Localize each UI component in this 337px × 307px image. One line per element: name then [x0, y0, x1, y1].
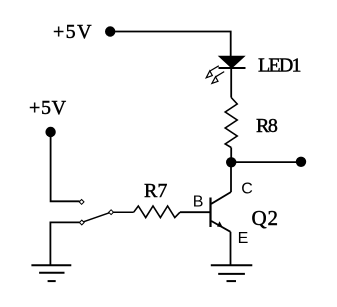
transistor Q2 emitter arrowhead	[217, 221, 223, 227]
ground (emitter) line 1	[211, 264, 253, 266]
transistor Q2 collector diagonal	[211, 192, 231, 204]
svg-text:E: E	[238, 230, 249, 247]
wire: left +5V down and right to upper switch contact	[51, 132, 80, 201]
switch upper throw contact (diamond)	[79, 200, 84, 205]
resistor R8	[225, 98, 237, 148]
LED1 anode triangle	[219, 56, 244, 68]
switch lower throw contact (diamond)	[79, 220, 84, 225]
wire: ground branch up to lower switch contact	[50, 222, 79, 265]
svg-text:C: C	[241, 181, 253, 198]
wire: R7 to base	[180, 211, 211, 213]
transistor Q2 base bar	[209, 198, 211, 228]
node: +5V top terminal dot	[105, 26, 115, 36]
ground (emitter) line 2	[218, 273, 245, 275]
wire: R8 bottom to collector junction	[230, 148, 232, 163]
svg-text:+5V: +5V	[53, 21, 93, 43]
LED1 light emission arrow 2	[212, 72, 224, 84]
svg-text:LED1: LED1	[258, 54, 300, 76]
ground (emitter) line 3	[227, 280, 237, 282]
ground (switch) line 1	[31, 264, 71, 266]
node: right terminal dot	[296, 157, 306, 167]
svg-text:R7: R7	[144, 180, 167, 202]
wire: collector vertical from junction to transistor	[230, 162, 232, 192]
wire: junction to right terminal	[231, 161, 301, 163]
wire: emitter to ground	[230, 232, 232, 265]
transistor Q2 emitter diagonal	[211, 221, 230, 232]
ground (switch) line 2	[39, 272, 64, 274]
switch pole contact (diamond)	[109, 210, 114, 215]
node: collector junction dot	[226, 157, 236, 167]
svg-text:B: B	[193, 194, 204, 211]
LED1 light emission arrow 1	[206, 66, 219, 78]
node: left +5V terminal dot	[45, 127, 55, 137]
svg-text:+5V: +5V	[29, 97, 67, 119]
wire: LED cathode to R8 top	[230, 68, 232, 98]
svg-text:Q2: Q2	[252, 206, 279, 230]
switch arm	[82, 212, 111, 222]
ground (switch) line 3	[48, 280, 56, 282]
wire: switch pole to R7	[113, 211, 134, 213]
wire: top rail from +5V dot to LED branch corner	[110, 32, 231, 57]
resistor R7	[134, 206, 180, 218]
LED1 cathode bar	[219, 67, 246, 69]
svg-text:R8: R8	[256, 115, 278, 137]
